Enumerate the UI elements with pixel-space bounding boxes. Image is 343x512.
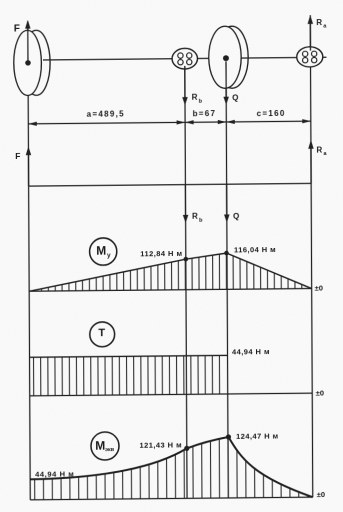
T baseline — [30, 393, 313, 396]
force arrow F (top schematic) — [14, 20, 31, 62]
reaction arrow Rb (beam) — [183, 184, 203, 223]
bearing A (right support) — [297, 47, 323, 67]
wire Rb projection line — [185, 59, 187, 499]
gear cylinder (disk at Q) — [209, 26, 249, 88]
wire Q projection line — [226, 58, 228, 498]
Mekv diagram curve — [30, 436, 313, 500]
T diagram hatching — [34, 355, 220, 397]
dimension line b=67 — [185, 109, 226, 124]
Mekv diagram hatching — [34, 433, 307, 501]
scan noise overlay — [0, 0, 1, 1]
label T circle — [90, 322, 115, 347]
Mekv baseline — [30, 497, 313, 500]
My baseline — [29, 289, 312, 292]
node Mekv at Q — [226, 434, 231, 439]
load arrow Q (beam) — [224, 184, 239, 223]
label My circle — [90, 238, 117, 265]
reaction arrow Ra (beam) — [308, 140, 327, 184]
My diagram hatching — [34, 249, 301, 292]
wire Ra projection line — [310, 15, 313, 497]
pulley (left disk) — [14, 30, 51, 95]
load arrow Q (top schematic) — [223, 61, 238, 105]
force arrow F (beam) — [15, 146, 31, 186]
T diagram rectangle top — [30, 355, 228, 357]
dimension line a=489,5 — [28, 109, 185, 126]
bearing B (left support) — [172, 48, 198, 69]
reaction arrow Ra (top schematic) — [308, 15, 328, 51]
wire beam line (load diagram) — [29, 183, 312, 186]
label Mekv circle — [91, 432, 119, 460]
node My at Q — [224, 251, 229, 256]
dimension line c=160 — [226, 109, 311, 124]
reaction arrow Rb (top schematic) — [182, 66, 203, 106]
wire left projection line (F line) — [28, 21, 30, 500]
node Mekv at Rb — [184, 446, 189, 451]
My diagram outline — [29, 252, 312, 291]
node My at Rb — [184, 257, 189, 262]
wire shaft centerline — [43, 57, 327, 60]
